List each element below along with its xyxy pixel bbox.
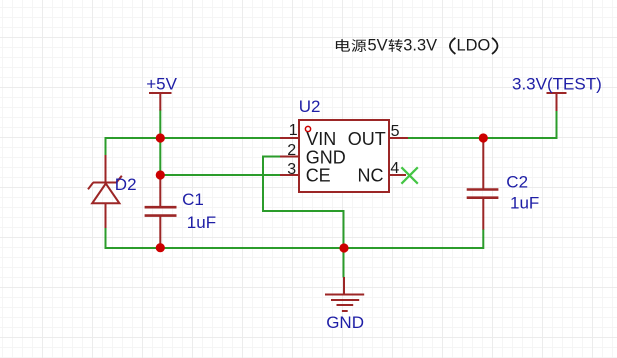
- svg-text:5: 5: [391, 123, 400, 140]
- svg-text:4: 4: [390, 160, 399, 177]
- svg-text:3.3V(TEST): 3.3V(TEST): [512, 74, 602, 93]
- svg-text:LDO: LDO: [457, 37, 491, 55]
- svg-text:GND: GND: [306, 147, 346, 167]
- svg-text:1uF: 1uF: [187, 213, 216, 232]
- svg-text:C2: C2: [506, 172, 528, 191]
- svg-text:GND: GND: [326, 313, 364, 332]
- svg-text:VIN: VIN: [306, 129, 336, 149]
- svg-text:1uF: 1uF: [510, 194, 539, 213]
- svg-text:NC: NC: [358, 166, 384, 186]
- svg-text:+5V: +5V: [146, 75, 177, 94]
- svg-text:1: 1: [289, 122, 298, 139]
- svg-text:CE: CE: [306, 166, 331, 186]
- svg-text:3: 3: [287, 161, 296, 178]
- svg-text:OUT: OUT: [348, 129, 386, 149]
- svg-text:D2: D2: [115, 175, 137, 194]
- svg-text:C1: C1: [182, 190, 204, 209]
- svg-text:5V: 5V: [368, 37, 388, 55]
- svg-text:3.3V: 3.3V: [403, 37, 437, 55]
- svg-text:U2: U2: [299, 97, 321, 116]
- svg-text:2: 2: [287, 142, 296, 159]
